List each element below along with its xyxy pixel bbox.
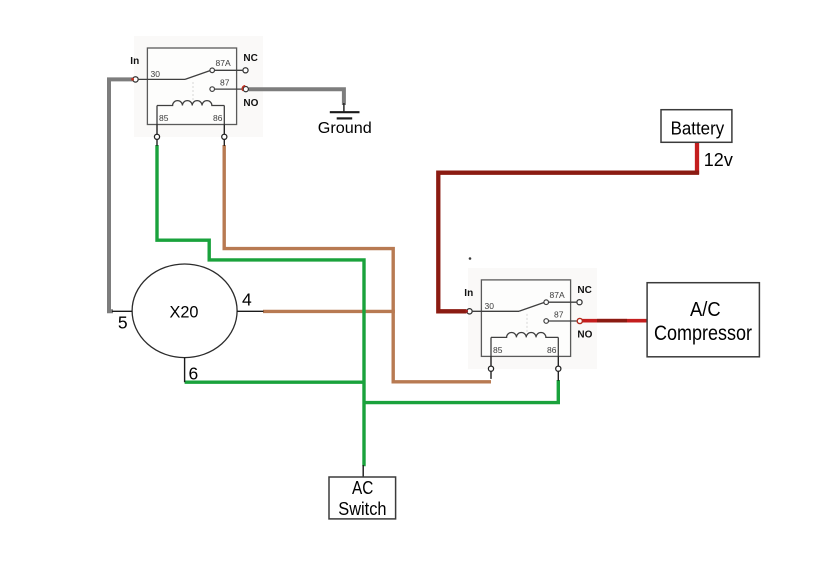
A/C compressor box [647,283,759,357]
relay 2 pin 30 wire [473,310,519,312]
svg-text:NO: NO [577,330,592,341]
AC switch stub [362,465,364,477]
relay 2 86 stub [557,356,559,381]
ground symbol bar 1 [330,111,360,113]
relay 1 coil left leg [156,106,158,125]
relay 1 coil [157,101,224,106]
svg-text:NO: NO [243,98,258,109]
svg-text:NC: NC [577,285,591,296]
stray dot artifact [469,257,472,260]
svg-text:85: 85 [159,113,169,123]
svg-text:NC: NC [243,53,257,64]
relay 1 85 terminal [154,134,159,139]
svg-text:86: 86 [547,345,557,355]
svg-text:30: 30 [151,69,161,79]
battery box [661,110,732,143]
relay 1 86 stub [223,125,225,147]
relay 1 switch arm [185,71,210,80]
svg-text:In: In [130,56,139,67]
relay 1 87A to NC wire [215,69,243,71]
relay 2 87A contact [544,300,549,305]
wire green: relay1 85 to AC switch [157,145,364,466]
svg-text:Compressor: Compressor [654,322,752,345]
relay 2 [464,280,592,381]
relay 2 NC terminal [577,300,582,305]
relay 1 NO terminal red fleck [242,86,245,91]
wire brown: relay1 86 to relay2 85 [224,145,491,382]
svg-text:12v: 12v [704,150,733,170]
wire gray: relay1 NO to ground [249,89,344,105]
relay 1 87 contact [210,87,215,92]
svg-text:85: 85 [493,345,503,355]
relay 1 pin 30 wire [139,78,185,80]
wire brown: X20 pin 4 branch [263,310,395,313]
relay 2 85 stub [490,356,492,379]
svg-text:AC: AC [352,477,373,498]
X20 pin 6 lead [184,358,186,383]
X20 pin 5 lead [112,310,132,312]
relay 2 87 to NO wire [549,320,577,322]
relay 1 87 to NO wire [215,88,243,90]
relay 1 In terminal red fleck [131,78,134,81]
svg-text:87A: 87A [550,290,565,300]
relay 2 87A to NC wire [549,301,577,303]
relay 1 body [147,48,236,125]
relay 1 [130,48,258,146]
relay 2 NO terminal [577,318,582,323]
wire red: relay2 NO to A/C compressor [582,319,648,323]
wire green: X20 pin 6 branch [185,381,364,384]
svg-text:Battery: Battery [671,118,725,139]
relay 2 coil right leg [557,337,559,356]
svg-text:87: 87 [554,309,564,319]
svg-text:5: 5 [118,312,128,332]
relay 1 86 terminal [222,134,227,139]
relay 1 85 stub [156,125,158,147]
svg-text:87A: 87A [216,58,231,68]
relay 2 85 terminal [488,366,493,371]
ground symbol bar 2 [337,117,353,119]
relay 2 bitmap background [468,268,597,369]
svg-text:86: 86 [213,113,223,123]
svg-text:6: 6 [189,363,199,383]
relay 1 coil right leg [223,106,225,125]
ground symbol stem [343,103,345,111]
wire red: battery 12v drop [695,143,699,174]
relay 1 NC terminal [243,68,248,73]
svg-text:X20: X20 [170,302,199,321]
relay 2 87 contact [544,319,549,324]
wire dark red: battery to relay2 In [438,173,699,312]
svg-text:In: In [464,288,473,299]
relay 1 87A contact [210,68,215,73]
svg-text:87: 87 [220,78,230,88]
relay 1 pivot dashed line [192,82,194,101]
relay 1 In terminal [133,77,138,82]
wire green: junction to relay2 86 [364,380,558,403]
svg-text:Switch: Switch [338,498,386,519]
relay 2 coil [491,332,558,337]
wire dark red segment on NO wire [597,319,627,323]
relay 1 bitmap background [134,36,263,137]
relay 2 switch arm [519,303,544,312]
relay 2 pivot dashed line [526,314,528,333]
svg-text:Ground: Ground [318,120,372,137]
relay 2 coil left leg [490,337,492,356]
relay 1 NO terminal [243,87,248,92]
wire gray: relay1 In to X20 pin 5 [109,79,133,311]
X20 connector circle [132,264,237,358]
svg-text:30: 30 [485,301,495,311]
relay 2 In terminal [467,309,472,314]
svg-text:A/C: A/C [690,299,721,321]
relay 2 body [481,280,570,357]
svg-text:4: 4 [242,290,252,310]
AC switch box [329,477,396,519]
relay 2 86 terminal [556,366,561,371]
X20 pin 4 lead [237,310,264,312]
relay 2 In terminal red fleck [465,310,468,313]
